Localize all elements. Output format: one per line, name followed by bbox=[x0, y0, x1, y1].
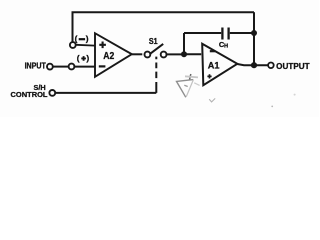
switch S1 contact left bbox=[145, 52, 151, 58]
svg-text:): ) bbox=[86, 53, 89, 63]
terminal circle S/H CONTROL bbox=[49, 90, 55, 96]
svg-text:(: ( bbox=[77, 53, 80, 63]
wire dashed control line to switch S1 bbox=[155, 57, 157, 93]
faint smudge above ground bbox=[185, 76, 198, 77]
faint smudge right of ground bbox=[194, 83, 199, 86]
junction dot hold node bbox=[181, 51, 187, 57]
stray faint speck under output label bbox=[294, 94, 296, 96]
svg-text:S1: S1 bbox=[149, 37, 158, 46]
capacitor CH left plate bbox=[221, 28, 223, 40]
terminal circle (-) pin bbox=[70, 42, 76, 48]
terminal circle (+) pin bbox=[69, 64, 75, 70]
wire switch to hold node bbox=[167, 53, 184, 55]
wire right vertical from top wire down to output node bbox=[253, 12, 255, 65]
op-amp A1 bbox=[202, 44, 237, 85]
wire hold node to A1 inverting input bbox=[184, 53, 201, 55]
op-amp A2 minus input mark bbox=[99, 65, 106, 67]
capacitor CH right plate bbox=[227, 28, 229, 40]
wire from INPUT terminal to (+) pin bbox=[53, 66, 68, 68]
wire A1 output to OUTPUT terminal bbox=[237, 64, 267, 65]
wire from (-) pin to A2 noninverting input bbox=[76, 44, 95, 47]
svg-text:): ) bbox=[86, 34, 89, 44]
wire A2 output to switch S1 bbox=[132, 53, 143, 55]
op-amp A1 plus input mark bbox=[207, 74, 211, 78]
svg-text:CONTROL: CONTROL bbox=[11, 90, 48, 99]
wire capacitor CH right lead bbox=[230, 32, 254, 34]
wire capacitor CH left lead bbox=[184, 32, 221, 34]
wire from (+) pin to A2 inverting input bbox=[75, 66, 95, 68]
wire S/H control horizontal bbox=[55, 92, 156, 94]
terminal circle INPUT bbox=[47, 64, 53, 70]
switch S1 contact right bbox=[161, 52, 167, 58]
ground symbol (faint) bbox=[177, 80, 194, 98]
wire top feedback from output node to A2 (-) pin bbox=[72, 11, 255, 13]
svg-text:INPUT: INPUT bbox=[25, 61, 46, 70]
junction dot output node bbox=[251, 62, 257, 68]
junction dot capacitor lead at right vertical bbox=[251, 30, 257, 36]
terminal circle OUTPUT bbox=[268, 63, 274, 69]
wire left vertical down to (-) terminal bbox=[72, 12, 74, 42]
svg-text:OUTPUT: OUTPUT bbox=[276, 62, 310, 71]
op-amp A2 plus input mark bbox=[99, 42, 106, 49]
ground inner speck bbox=[184, 85, 187, 86]
op-amp A2 bbox=[95, 33, 132, 77]
svg-text:(: ( bbox=[75, 34, 78, 44]
svg-text:A1: A1 bbox=[208, 61, 220, 72]
stray check mark speck bottom center bbox=[209, 98, 215, 102]
wire ground stem bbox=[189, 74, 190, 80]
svg-text:H: H bbox=[224, 44, 228, 50]
stray speck left of output bbox=[271, 106, 273, 108]
svg-text:A2: A2 bbox=[103, 51, 114, 62]
wire hold node up to capacitor CH bbox=[183, 33, 185, 54]
switch S1 arm bbox=[150, 44, 163, 54]
op-amp A1 minus input mark bbox=[210, 50, 216, 52]
